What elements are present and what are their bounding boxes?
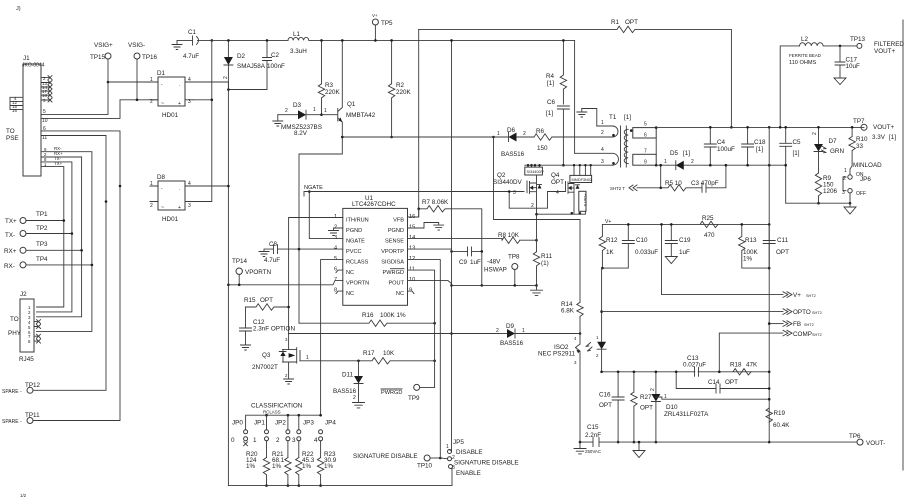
ground for D3 [273,115,283,126]
svg-text:2N7002T: 2N7002T [252,364,278,371]
svg-text:2: 2 [650,388,656,391]
svg-text:D5: D5 [670,150,679,157]
svg-text:OPT: OPT [776,249,789,256]
svg-text:7: 7 [644,149,647,155]
transistor Q1 MMBTA42 [322,39,376,137]
J1 pin labels 5,10,6,11 [42,109,63,167]
diode D6 BAS516 [494,127,535,158]
svg-text:0: 0 [231,437,235,444]
svg-text:9: 9 [644,160,647,166]
J1 left pins 4,12,15,16 bus [10,96,23,113]
svg-text:470: 470 [704,232,715,239]
svg-text:R2: R2 [396,82,405,89]
resistor R23 30.9 1% [317,451,336,487]
svg-text:1: 1 [844,168,847,174]
svg-text:2: 2 [150,203,153,209]
svg-text:JP6: JP6 [860,176,871,183]
svg-text:[1]: [1] [547,80,554,87]
svg-text:SMAJ58A: SMAJ58A [237,63,266,70]
svg-text:TO: TO [10,316,19,323]
svg-text:VPORTP: VPORTP [381,249,404,255]
svg-text:FILTERED: FILTERED [874,41,904,48]
ground for Q3 [284,379,294,384]
svg-text:RX+: RX+ [4,248,17,255]
svg-text:2: 2 [523,131,526,137]
svg-text:D11: D11 [342,372,354,379]
U1 pin 15 PGND ground [408,223,444,231]
svg-text:TP10: TP10 [417,463,433,470]
svg-text:SPARE -: SPARE - [2,389,22,395]
svg-text:TP5: TP5 [381,20,393,27]
svg-text:SI3440DV: SI3440DV [527,170,545,174]
transformer T1 [1] [552,114,658,167]
svg-text:10K: 10K [383,350,395,357]
svg-text:PWRGD: PWRGD [381,390,402,396]
svg-text:MINLOAD: MINLOAD [853,162,882,169]
svg-text:~: ~ [161,205,164,211]
wire NGATE net [304,185,524,196]
U1 pin 7 VPORTN wire [228,281,342,285]
svg-text:C9: C9 [459,259,468,266]
jumper JP1 [253,415,269,457]
wire V+ sheet line [662,224,784,294]
U1 pin 5 RCLASS wire down to classification rail [321,260,343,416]
svg-text:10: 10 [42,118,48,124]
U1 pin 3 NGATE riser [309,192,343,239]
svg-text:1: 1 [334,214,337,220]
wire D1.1 from TP15 junction [108,81,158,83]
diode D5 [1] [664,150,786,170]
svg-text:RCLASS: RCLASS [263,410,281,415]
bridge rectifier D8 HD01 [150,174,193,223]
svg-text:NC: NC [346,291,354,297]
capacitor C1 4.7uF with earth ground [172,29,199,60]
svg-text:1: 1 [664,159,667,165]
svg-text:TP11: TP11 [25,412,40,419]
svg-text:NEC PS2911: NEC PS2911 [538,351,575,358]
svg-text:2: 2 [353,395,356,401]
svg-text:D1: D1 [157,70,166,77]
svg-text:D3: D3 [293,102,302,109]
sheet right border [902,20,904,470]
svg-text:1: 1 [324,108,327,114]
svg-text:JP3: JP3 [303,420,314,427]
capacitor C8 4.7uF on PVCC with ground [259,241,299,264]
resistor R2 220K [388,39,411,138]
svg-text:0.033uF: 0.033uF [635,249,658,256]
svg-text:BAS516: BAS516 [501,151,525,158]
wire classification top rail [246,415,321,430]
svg-text:1: 1 [253,437,257,444]
resistor R19 60.4K [766,408,790,443]
svg-text:C1: C1 [188,29,197,36]
svg-text:TP8: TP8 [508,254,520,261]
resistor R10 33 [849,126,868,166]
MOSFET Q4 OPT [548,164,592,213]
resistor R1 OPT (feedback, top) [419,19,733,129]
inductor L2 FERRITE BEAD 110 OHMS [779,36,857,129]
svg-text:D2: D2 [237,53,246,60]
capacitor C15 2.2nF 250VAC [585,424,601,454]
svg-text:C4: C4 [717,139,726,146]
ground for R11/POUT [531,285,543,295]
svg-text:OFF: OFF [856,191,866,197]
svg-text:220K: 220K [396,89,412,96]
svg-text:TP13: TP13 [850,36,866,43]
test point TP1 TX+ [5,211,65,225]
wire J1.8 TX- column to TP2 and J2.2 [37,162,72,312]
svg-text:TX-: TX- [5,232,15,239]
svg-text:C6: C6 [547,99,556,106]
svg-text:SIGNATURE DISABLE: SIGNATURE DISABLE [454,460,519,467]
svg-text:R19: R19 [774,410,786,417]
node PWRGD column pin11 to TP9 [408,270,435,387]
svg-text:R3: R3 [325,82,334,89]
svg-text:2: 2 [691,159,694,165]
svg-text:VFB: VFB [393,218,404,224]
svg-text:Q3: Q3 [262,352,271,359]
snubber branch R5 and C3 [659,164,727,192]
svg-text:VPORTN: VPORTN [346,281,369,287]
svg-text:C18: C18 [754,139,766,146]
svg-text:C15: C15 [587,424,599,431]
svg-text:[1]: [1] [889,134,896,141]
capacitor C14 OPT branch [675,371,771,394]
LED D7 GRN [812,126,844,173]
svg-text:5: 5 [644,122,647,128]
wire source rail [537,211,586,214]
resistor R15 OPT on ITH [244,297,290,310]
resistor R16 100K 1% PVCC to PWRGD [299,312,436,326]
wire VPORTP rail down to T1 pin 4 [574,40,576,153]
svg-text:100K 1%: 100K 1% [380,312,406,319]
svg-text:Q4: Q4 [551,172,560,179]
svg-text:D7: D7 [829,138,838,145]
resistor R17 10K [300,350,436,364]
diode D9 BAS516 [496,323,580,347]
capacitor C4 100uF [704,126,735,167]
test point TP7 VOUT+ 3.3V [853,118,896,141]
svg-text:1: 1 [313,107,316,113]
svg-text:R1: R1 [611,19,620,26]
svg-text:MMBTA42: MMBTA42 [346,112,376,119]
svg-text:T1: T1 [609,114,617,121]
svg-text:R13: R13 [745,237,757,244]
wire ITH to opto collector line [289,333,499,335]
svg-text:FB: FB [793,321,801,328]
capacitor C13 0.027uF [683,355,706,377]
svg-text:R8 10K: R8 10K [498,232,520,239]
svg-text:11: 11 [409,267,415,273]
svg-text:JP1: JP1 [254,420,265,427]
svg-text:SIGDISA: SIGDISA [381,260,404,266]
svg-text:POUT: POUT [388,281,404,287]
svg-text:NGATE: NGATE [304,185,323,191]
wire V+ down to opto anode and OPTO line [601,268,604,312]
jumper JP5 DISABLE / SIGNATURE DISABLE / ENABLE [440,439,518,486]
svg-text:NC: NC [396,291,404,297]
svg-text:D8: D8 [157,174,166,181]
J2 unused pins 4,5,7,8 no-connect x [34,320,41,344]
svg-text:HD01: HD01 [162,112,179,119]
jumper JP3 [292,415,314,457]
test point TP6 VOUT- [849,433,885,447]
svg-text:4: 4 [601,147,604,153]
svg-text:JKO-0044: JKO-0044 [22,63,45,69]
svg-text:JP5: JP5 [453,439,464,446]
svg-text:VPORTN: VPORTN [245,269,272,276]
svg-text:3.3V: 3.3V [872,134,886,141]
svg-text:TP1: TP1 [36,211,48,218]
svg-text:CLASSIFICATION: CLASSIFICATION [251,403,303,410]
svg-text:3: 3 [601,159,604,165]
svg-text:OPT: OPT [551,179,564,186]
svg-text:C11: C11 [777,237,789,244]
svg-text:ENABLE: ENABLE [456,470,481,477]
test point TP11 SPARE [2,412,40,425]
resistor R8 10K (SENSE) [408,232,538,243]
svg-text:C10: C10 [636,237,648,244]
svg-text:+: + [178,205,181,211]
wire COMP sheet line [719,333,783,372]
svg-text:33: 33 [856,143,864,150]
svg-text:D9: D9 [506,323,515,330]
node -48V column (VPORTP rail down through pin13 to D9 and JP5) [451,40,453,451]
wire VPORTP top rail [199,39,575,41]
svg-text:V+: V+ [793,292,801,299]
svg-text:6.8K: 6.8K [561,308,575,315]
wire VOUT- bottom rail [580,441,857,443]
svg-text:PGND: PGND [388,228,404,234]
svg-text:2.3nF OPTION: 2.3nF OPTION [253,326,295,333]
test point TP4 RX- [4,256,93,270]
test point TP3 RX+ [4,241,83,255]
svg-text:TP12: TP12 [25,382,41,389]
wire J1.2 RX+ column to TP3 and J2.3 [37,157,82,317]
bridge rectifier D1 HD01 [150,70,193,119]
svg-text:SHT2 T: SHT2 T [610,186,625,191]
svg-text:R17: R17 [363,350,375,357]
svg-text:BAS516: BAS516 [500,340,524,347]
svg-text:FERRITE BEAD: FERRITE BEAD [789,53,821,58]
wire J1.1 TX+ column to TP1 and J2.1 [37,167,64,307]
svg-text:15: 15 [409,225,415,231]
wire aux supply from D6 node down to R14 [494,137,581,302]
sheet connector COMP [783,330,822,338]
svg-text:1uF: 1uF [470,259,481,266]
wire J1.6 down to D8.1 and TP11 [33,131,120,421]
Q4 source package box [579,191,587,211]
svg-text:MMDF3N02: MMDF3N02 [572,178,592,182]
svg-text:100nF: 100nF [267,63,285,70]
svg-text:[1]: [1] [624,114,631,121]
node SIGDISA column pin12 [408,260,441,458]
svg-text:PVCC: PVCC [346,249,362,255]
wire output ground rail with triangle ground [786,202,850,204]
wire POUT line [408,281,537,286]
diode D11 BAS516 [333,361,363,402]
svg-text:D10: D10 [666,404,678,411]
svg-text:HSWAP: HSWAP [484,267,507,274]
svg-text:1%: 1% [272,463,282,470]
svg-text:[1]: [1] [683,150,690,157]
svg-text:47K: 47K [746,362,758,369]
svg-text:.: . [179,186,180,192]
svg-text:+: + [178,101,181,107]
svg-text:1K: 1K [606,249,615,256]
svg-text:LTC4267CDHC: LTC4267CDHC [352,201,396,208]
svg-text:R27: R27 [640,394,652,401]
svg-text:12: 12 [409,256,415,262]
svg-text:2: 2 [223,76,229,79]
svg-text:VSIG+: VSIG+ [94,42,113,49]
connector J1 JKO-0044 [6,55,45,176]
svg-text:4: 4 [556,190,559,196]
triangle ground on VOUT- rail [633,441,645,458]
wire J1.9 RX- column to TP4 and J2.6 [37,152,92,332]
node VPORTP column from D1.3 and D8.3 [193,40,212,201]
svg-text:R11: R11 [541,253,553,260]
svg-text:1/2: 1/2 [20,493,27,498]
svg-text:R16: R16 [362,312,374,319]
jumper JP2 [275,415,290,457]
test point TP15 VSIG+ [90,42,113,83]
svg-text:16: 16 [12,108,17,113]
wire NGATE detour to Q4 gate [509,192,547,209]
svg-text:~: ~ [161,101,164,107]
svg-text:TP9: TP9 [408,395,420,402]
svg-text:13: 13 [409,246,415,252]
ground for D11 [353,403,365,408]
optocoupler ISO2 NEC PS2911 [538,312,606,443]
capacitor C9 1uF (VPORTP) [408,247,484,266]
U1 pin 6 NC stub [336,270,343,273]
svg-text:OPT: OPT [260,297,273,304]
resistor R7 8.06K (VFB) [408,199,484,287]
svg-text:TP15: TP15 [90,54,106,61]
svg-text:2: 2 [531,203,534,209]
wire V+ feed rail [602,223,769,225]
test point TP14 VPORTN [232,258,272,286]
svg-text:C2: C2 [271,52,280,59]
svg-text:ZRL431LF02TA: ZRL431LF02TA [664,411,709,418]
test point TP8 -48V HSWAP [484,254,520,287]
svg-text:3: 3 [188,203,191,209]
node PVCC column (Q1 emitter to PVCC pin and R16) [299,137,342,323]
wire VOUT+ rail (secondary top) [656,127,864,129]
svg-text:100uF: 100uF [717,146,735,153]
wire gate drive line from Q1 emitter node [342,136,493,138]
sheet connector SHT2 T [610,185,661,191]
ground for T1 pin 1 [577,109,597,127]
wire OPTO sheet line [602,311,783,313]
svg-text:[1]: [1] [793,150,800,157]
U1 left pin names and numbers [334,214,369,297]
svg-text:1%: 1% [246,463,256,470]
J1 unused pins 2,13,14,17,18,3 with no-connect x [41,76,52,103]
capacitor C19 1uF with ground [665,223,691,263]
svg-text:TP3: TP3 [36,241,48,248]
svg-text:JP4: JP4 [325,420,336,427]
svg-text:R4: R4 [546,73,555,80]
svg-text:250VAC: 250VAC [585,449,601,454]
U1 pin 9 NC stub [408,291,415,294]
svg-text:SHT2: SHT2 [812,333,822,337]
wire VOUT- rail (secondary bottom) with D5 [656,164,676,166]
svg-text:NGATE: NGATE [346,239,365,245]
wire primary drain rail [525,164,612,166]
svg-text:TP4: TP4 [36,256,48,263]
svg-text:4: 4 [334,246,337,252]
svg-text:C3 470pF: C3 470pF [691,180,719,187]
svg-text:4.7uF: 4.7uF [264,257,280,264]
U1 pin 4 PVCC wire [299,248,343,250]
transistor Q3 2N7002T [252,334,309,379]
wire J1.5 to D1.1 with TP15 tap [41,82,108,114]
wire FB node rail [602,371,770,373]
svg-text:1%: 1% [302,463,312,470]
svg-text:BAS516: BAS516 [333,388,357,395]
ground for ISO2 emitter [574,442,586,454]
svg-text:C19: C19 [679,237,691,244]
svg-text:C14: C14 [708,379,720,386]
test point TP5 [372,13,393,42]
zener diode D3 MMSZ5237BS 8.2V [278,102,322,137]
U1 pin 8 NC stub [336,291,343,294]
svg-text:RJ45: RJ45 [19,356,34,363]
svg-text:PGND: PGND [346,228,362,234]
svg-text:R7 8.06K: R7 8.06K [422,199,449,206]
svg-text:.: . [179,82,180,88]
resistor R3 220K [318,39,340,116]
svg-text:J): J) [16,6,21,12]
svg-text:10uF: 10uF [846,63,861,70]
svg-text:VSIG-: VSIG- [128,42,145,49]
svg-text:JP2: JP2 [275,420,286,427]
svg-text:PHY: PHY [8,330,22,337]
svg-text:4: 4 [314,437,318,444]
svg-text:1%: 1% [324,463,334,470]
svg-text:SI3440DV: SI3440DV [493,179,523,186]
svg-text:1: 1 [497,131,500,137]
svg-text:J2: J2 [20,291,27,298]
svg-text:JP0: JP0 [232,420,243,427]
svg-text:C16: C16 [599,392,611,399]
resistor R18 47K [730,362,758,375]
svg-text:1: 1 [306,355,309,361]
svg-text:+OUTS: +OUTS [583,194,587,207]
svg-text:TP16: TP16 [142,54,158,61]
capacitor C17 10uF with ground [834,45,860,85]
node V+ column top [768,126,771,129]
jumper JP6 MINLOAD ON/OFF [842,162,882,205]
svg-text:R25: R25 [702,215,714,222]
resistor R4 [1] snubber [546,39,567,104]
connector J2 RJ45 TO PHY [8,291,34,363]
svg-text:SENSE: SENSE [385,239,404,245]
svg-text:14: 14 [409,235,415,241]
svg-text:NC: NC [346,270,354,276]
svg-text:PSE: PSE [6,135,19,142]
sheet connector V+ [783,292,816,299]
svg-text:PWRGD: PWRGD [383,270,404,276]
capacitor C18 [1] [742,126,766,167]
IC U1 LTC4267CDHC [343,195,408,305]
test point TP16 VSIG- [128,42,158,101]
svg-text:R6: R6 [536,128,545,135]
svg-text:1uF: 1uF [679,249,690,256]
capacitor C6 [1] snubber [546,99,569,167]
